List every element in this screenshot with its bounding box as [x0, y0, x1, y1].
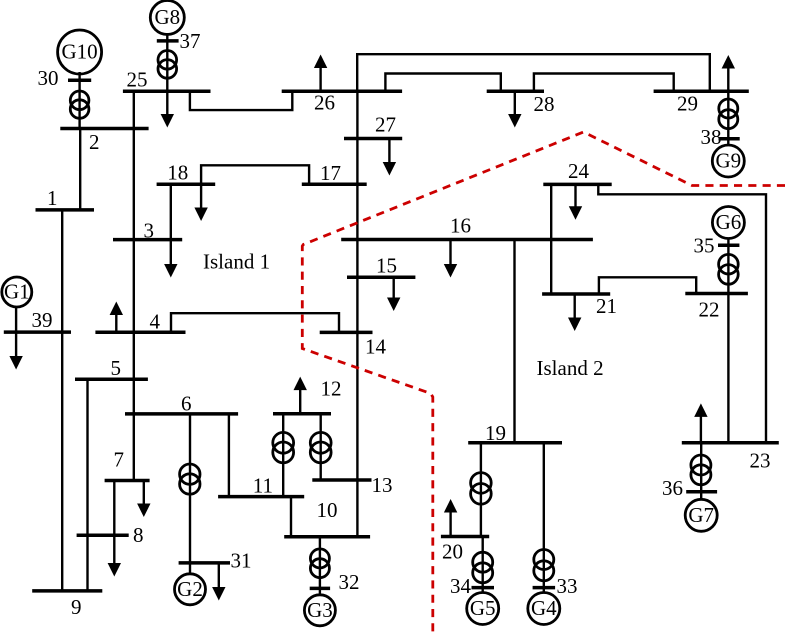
- wire bus 23 to G7: [700, 443, 702, 500]
- load arrow bus 7: [143, 481, 145, 506]
- wire line 21-22: [599, 277, 696, 294]
- svg-text:39: 39: [32, 308, 53, 332]
- wire line 22-23: [727, 294, 729, 443]
- svg-text:G2: G2: [177, 577, 203, 601]
- wire line 18-17: [201, 165, 309, 184]
- bus 17: [302, 182, 367, 186]
- svg-text:30: 30: [38, 66, 59, 90]
- wire line 1-39-9: [61, 210, 63, 591]
- load arrow bus 18: [200, 184, 202, 209]
- load arrow bus 23 (up): [700, 415, 702, 442]
- transformer 12-11: [273, 432, 294, 453]
- svg-text:33: 33: [557, 574, 578, 598]
- generator G4: [528, 593, 560, 625]
- bus 2: [60, 127, 148, 131]
- svg-text:4: 4: [150, 310, 161, 334]
- bus 34: [472, 586, 495, 590]
- wire G8 to bus 25: [166, 33, 168, 91]
- transformer 29-38: [719, 99, 738, 118]
- bus 38: [719, 137, 740, 141]
- bus 8: [77, 533, 129, 537]
- load arrow bus 21: [574, 294, 576, 319]
- svg-text:32: 32: [339, 570, 360, 594]
- svg-text:15: 15: [376, 254, 397, 278]
- load arrow bus 8: [113, 535, 115, 564]
- generator G6: [712, 207, 744, 239]
- transformer 6-31: [180, 464, 200, 484]
- wire line 16-19: [513, 240, 515, 443]
- transformer 35-22: [719, 254, 739, 274]
- svg-text:G7: G7: [688, 503, 714, 527]
- bus 28: [487, 90, 544, 94]
- wire bus 20 to G5: [482, 537, 484, 594]
- load arrow bus 31: [218, 563, 220, 589]
- bus 5: [75, 377, 148, 381]
- svg-text:G10: G10: [62, 40, 98, 64]
- bus 22: [685, 292, 748, 296]
- bus 30: [68, 78, 91, 82]
- wire bus 10 to G3: [319, 537, 321, 595]
- svg-text:34: 34: [450, 574, 472, 598]
- wire bus 19 to G4: [543, 443, 545, 594]
- svg-text:1: 1: [47, 186, 58, 210]
- bus 37: [157, 39, 179, 43]
- bus 3: [113, 238, 182, 242]
- svg-text:29: 29: [677, 92, 698, 116]
- wire line 26-29 top: [357, 54, 710, 91]
- bus 7: [105, 479, 150, 483]
- bus 20: [441, 535, 489, 539]
- bus 25: [123, 90, 211, 94]
- generator G1: [2, 277, 32, 307]
- bus 24: [543, 183, 611, 187]
- wire line 4-14: [171, 313, 339, 332]
- svg-text:Island 2: Island 2: [537, 356, 604, 380]
- load arrow bus 27: [388, 139, 390, 164]
- svg-text:14: 14: [365, 335, 387, 359]
- svg-text:21: 21: [596, 294, 617, 318]
- svg-text:22: 22: [699, 298, 720, 322]
- bus 23: [682, 441, 779, 445]
- bus 36: [686, 490, 717, 494]
- bus 18: [157, 182, 216, 186]
- wire line 24-23: [598, 184, 766, 442]
- svg-text:G5: G5: [470, 596, 496, 620]
- wire line 2-1: [79, 129, 81, 210]
- wire line 25-2-3-4-5-6-7 trunk: [133, 91, 135, 480]
- bus 11: [218, 495, 304, 499]
- svg-text:38: 38: [701, 125, 722, 149]
- svg-text:G9: G9: [715, 149, 741, 173]
- svg-text:23: 23: [750, 449, 771, 473]
- generator G8: [150, 1, 184, 35]
- bus 31: [179, 561, 230, 565]
- island boundary red dashed line: [302, 132, 785, 634]
- transformer 12-13: [310, 432, 331, 453]
- svg-text:20: 20: [442, 540, 463, 564]
- bus 26: [282, 90, 402, 94]
- svg-text:6: 6: [181, 392, 192, 416]
- load arrow bus 4 (up): [115, 314, 117, 333]
- bus 4: [95, 331, 185, 335]
- svg-text:28: 28: [534, 92, 555, 116]
- svg-text:13: 13: [372, 473, 393, 497]
- wire line 26-27-17-16-15-14-13-10 trunk: [356, 91, 358, 536]
- svg-text:37: 37: [180, 29, 201, 53]
- wire bus 19 to bus 20 transformer branch: [480, 443, 482, 537]
- bus 9: [32, 589, 102, 593]
- svg-text:31: 31: [231, 549, 252, 573]
- transformer 10-32: [310, 549, 329, 568]
- load arrow bus 16: [449, 240, 451, 266]
- wire line 7-8: [113, 481, 115, 536]
- svg-text:19: 19: [485, 421, 506, 445]
- svg-text:3: 3: [144, 219, 155, 243]
- svg-text:G3: G3: [307, 598, 333, 622]
- bus 19: [468, 441, 562, 445]
- svg-text:5: 5: [111, 356, 122, 380]
- svg-text:12: 12: [321, 377, 342, 401]
- bus 39: [4, 330, 71, 334]
- svg-text:17: 17: [320, 161, 341, 185]
- wire bus 12 to bus 13 transformer branch: [320, 414, 322, 480]
- bus 10: [284, 535, 370, 539]
- wire line 6-11: [228, 414, 230, 497]
- load arrow bus 39: [15, 332, 17, 357]
- transformer 23-36: [691, 455, 711, 475]
- bus 1: [36, 208, 95, 212]
- svg-text:26: 26: [314, 91, 335, 115]
- bus 13: [312, 478, 371, 482]
- bus 6: [125, 412, 238, 416]
- svg-text:16: 16: [450, 214, 471, 238]
- bus 32: [310, 587, 330, 591]
- bus 27: [344, 137, 402, 141]
- bus 16: [341, 238, 593, 242]
- svg-text:27: 27: [375, 113, 396, 137]
- svg-text:8: 8: [133, 523, 144, 547]
- load arrow bus 20 (up): [449, 511, 451, 537]
- wire line 25-26: [190, 91, 292, 110]
- svg-text:Island 1: Island 1: [203, 250, 270, 274]
- load arrow bus 26 (up): [319, 67, 321, 92]
- wire line 24-16-21: [550, 184, 552, 294]
- load arrow bus 25: [166, 91, 168, 115]
- transformer 19-33: [534, 550, 554, 570]
- load arrow bus 24: [574, 184, 576, 207]
- generator G7: [685, 499, 717, 531]
- generator G10: [58, 30, 102, 74]
- svg-text:36: 36: [662, 476, 683, 500]
- transformer 30-2: [70, 91, 89, 110]
- wire line 28-29: [534, 74, 674, 92]
- generator G3: [304, 595, 335, 626]
- svg-text:35: 35: [694, 234, 715, 258]
- generator G2: [175, 574, 206, 605]
- transformer 37-25: [158, 51, 177, 70]
- bus 21: [542, 292, 610, 296]
- bus 35: [718, 244, 739, 248]
- wire line 26-28: [385, 74, 500, 92]
- wire line 11-10: [290, 497, 292, 537]
- generator G9: [712, 145, 744, 177]
- load arrow bus 3: [170, 240, 172, 266]
- svg-text:G1: G1: [4, 280, 30, 304]
- svg-text:24: 24: [568, 159, 590, 183]
- wire bus 12 to bus 11 transformer branch: [282, 414, 284, 497]
- load arrow bus 28: [514, 91, 516, 115]
- bus 29: [654, 90, 749, 94]
- wire G1 to bus 39: [15, 306, 17, 332]
- load arrow bus 12 (up): [299, 389, 301, 414]
- bus 33: [533, 586, 556, 590]
- generator G5: [467, 593, 499, 625]
- bus 12: [273, 412, 331, 416]
- wire line 3-18: [170, 184, 172, 239]
- svg-text:7: 7: [114, 448, 125, 472]
- wire G6 to bus 22: [727, 238, 729, 294]
- bus 14: [320, 331, 373, 335]
- svg-text:G4: G4: [531, 596, 557, 620]
- load arrow bus 29 (up): [727, 67, 729, 91]
- load arrow bus 15: [393, 277, 395, 299]
- transformer 20-34: [473, 552, 493, 572]
- svg-text:2: 2: [89, 130, 100, 154]
- wire line 5-8-9: [86, 379, 88, 591]
- svg-text:25: 25: [127, 68, 148, 92]
- wire bus 29 to G9: [727, 91, 729, 146]
- svg-text:18: 18: [167, 161, 188, 185]
- bus 15: [347, 275, 415, 279]
- svg-text:11: 11: [253, 474, 273, 498]
- svg-text:10: 10: [317, 498, 338, 522]
- wire G10 to bus 2: [78, 72, 80, 129]
- svg-text:G8: G8: [154, 5, 180, 29]
- svg-text:9: 9: [71, 595, 82, 619]
- wire bus 6 to G2: [189, 414, 191, 574]
- transformer 19-20: [471, 473, 492, 494]
- svg-text:G6: G6: [716, 210, 742, 234]
